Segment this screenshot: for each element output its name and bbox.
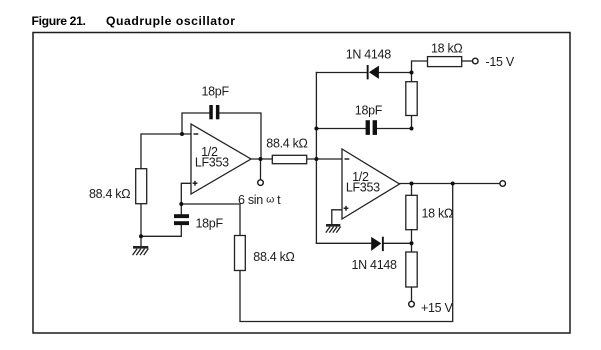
wire feedback left up to C1 xyxy=(182,113,209,134)
junction D2 R6 R7 node xyxy=(410,241,414,245)
junction U2 inverting node xyxy=(314,157,318,161)
svg-text:1N 4148: 1N 4148 xyxy=(346,48,392,62)
svg-text:6 sin ω t: 6 sin ω t xyxy=(238,193,281,207)
svg-text:18 kΩ: 18 kΩ xyxy=(422,207,453,221)
wire C3 right to node xyxy=(377,128,412,130)
wire D1 anode to node xyxy=(379,72,412,74)
junction bus C3 node xyxy=(314,127,318,131)
wire ground node to C2 bottom xyxy=(141,225,181,236)
resistor R1 88.4k left xyxy=(136,169,147,204)
resistor R5 88.4k bottom xyxy=(235,236,246,271)
wire R1 bottom to ground xyxy=(140,204,142,247)
svg-text:18pF: 18pF xyxy=(202,85,230,99)
svg-text:-15 V: -15 V xyxy=(486,55,515,69)
svg-text:18 kΩ: 18 kΩ xyxy=(431,41,462,55)
minus symbol U1 xyxy=(194,133,199,135)
wire U2 output line xyxy=(400,183,500,185)
junction plus node U1 xyxy=(179,202,183,206)
resistor R3 18k horizontal xyxy=(428,57,462,67)
wire plus input elbow U2 to ground xyxy=(332,210,342,224)
ground GND1 xyxy=(133,247,149,255)
svg-text:LF353: LF353 xyxy=(346,180,380,194)
junction inverting node U1 xyxy=(180,132,184,136)
wire D2 cathode to node xyxy=(383,242,412,244)
terminal output right xyxy=(500,181,506,187)
wire R2 to U2 inverting input xyxy=(307,158,342,160)
minus symbol U2 xyxy=(345,158,350,160)
svg-text:88.4 kΩ: 88.4 kΩ xyxy=(253,250,294,264)
wire bus bottom to D2 anode xyxy=(316,242,371,244)
wire node up to R3 xyxy=(412,61,428,73)
border frame xyxy=(33,33,570,334)
resistor R4 vertical top right xyxy=(406,82,417,116)
junction U2 output node xyxy=(410,182,414,186)
terminal -15V xyxy=(473,58,479,64)
resistor R2 88.4k horizontal xyxy=(272,155,306,163)
svg-text:Figure 21.: Figure 21. xyxy=(32,14,86,28)
diode D1 1N4148 xyxy=(367,65,369,79)
wire plus node to R5 xyxy=(181,204,240,236)
resistor R6 18k vertical xyxy=(406,195,417,229)
svg-text:LF353: LF353 xyxy=(195,155,229,169)
wire inverting input U1 xyxy=(141,134,191,169)
wire U1 output xyxy=(251,158,272,160)
wire feedback bottom loop xyxy=(240,184,453,322)
plus symbol U2 xyxy=(344,206,349,211)
svg-text:18pF: 18pF xyxy=(355,104,383,118)
junction R1 ground node xyxy=(139,234,143,238)
diode D2 1N4148 xyxy=(371,237,381,251)
wire plus input elbow U1 xyxy=(181,183,191,204)
capacitor C1 18pF plates xyxy=(209,105,213,119)
terminal 6 sin wt output xyxy=(258,180,264,186)
wire C2 top to plus node xyxy=(180,204,182,214)
plus symbol U1 xyxy=(193,181,198,186)
capacitor C3 18pF plates xyxy=(366,120,370,135)
resistor R7 vertical to +15V xyxy=(406,252,417,287)
ground GND2 xyxy=(326,225,341,232)
op-amp U2 xyxy=(342,149,400,219)
svg-text:1N 4148: 1N 4148 xyxy=(352,258,398,272)
wire output terminal stub xyxy=(260,159,262,180)
svg-text:+15 V: +15 V xyxy=(421,301,453,315)
junction R4 C3 node xyxy=(410,127,414,131)
junction D1 R3 R4 node xyxy=(410,71,414,75)
junction feedback tee xyxy=(451,182,455,186)
capacitor C2 18pF plates xyxy=(174,214,189,218)
wire bus to D1 cathode xyxy=(316,72,366,74)
junction U1 output node xyxy=(259,157,263,161)
svg-text:88.4 kΩ: 88.4 kΩ xyxy=(266,136,307,150)
wire R6 stubs xyxy=(411,184,413,244)
wire R4 stubs xyxy=(411,73,413,129)
wire R7 stubs xyxy=(411,243,413,301)
terminal +15V xyxy=(409,301,415,307)
svg-text:88.4 kΩ: 88.4 kΩ xyxy=(89,187,130,201)
wire C1 right to output node xyxy=(219,113,261,159)
wire node bus vertical xyxy=(315,73,317,244)
svg-text:Quadruple oscillator: Quadruple oscillator xyxy=(106,14,236,28)
wire bus to C3 left xyxy=(316,128,365,130)
wire R3 to -15V terminal xyxy=(462,60,473,62)
op-amp U1 xyxy=(191,124,251,194)
svg-text:18pF: 18pF xyxy=(196,217,224,231)
